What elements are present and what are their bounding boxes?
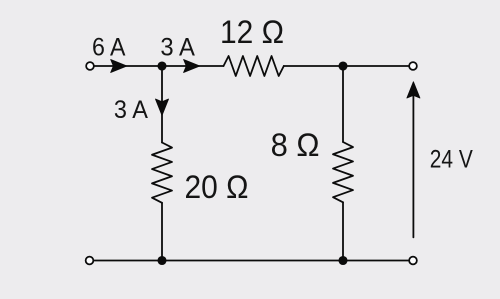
wire top-left segment xyxy=(90,65,224,67)
wire branch left vertical xyxy=(161,66,163,143)
terminal top-right xyxy=(409,62,417,70)
svg-text:3 A: 3 A xyxy=(114,96,148,124)
node junction top-right xyxy=(338,61,347,70)
terminal top-left xyxy=(86,62,94,70)
terminal bottom-left xyxy=(86,257,94,265)
wire top-right segment xyxy=(284,65,413,67)
resistor R3 8ohm xyxy=(333,142,353,202)
svg-text:24 V: 24 V xyxy=(430,145,473,173)
voltage arrow line 24V xyxy=(412,95,414,237)
node junction top-left xyxy=(157,61,166,70)
svg-text:6 A: 6 A xyxy=(92,34,126,62)
node junction bottom-right xyxy=(338,256,347,265)
resistor R1 12ohm xyxy=(224,56,284,76)
wire branch right vertical xyxy=(342,66,344,142)
current arrow 3A head (right) xyxy=(184,60,200,73)
svg-text:8 Ω: 8 Ω xyxy=(271,127,320,163)
current arrow 6A head xyxy=(111,60,127,73)
current arrow 3A head (down) xyxy=(156,99,169,115)
resistor R2 20ohm xyxy=(152,143,172,203)
voltage arrow 24V head xyxy=(407,82,420,98)
node junction bottom-left xyxy=(157,256,166,265)
svg-text:3 A: 3 A xyxy=(160,34,195,62)
terminal bottom-right xyxy=(409,257,417,265)
svg-text:12 Ω: 12 Ω xyxy=(220,14,284,50)
wire bottom xyxy=(90,260,413,262)
svg-text:20 Ω: 20 Ω xyxy=(185,169,249,205)
